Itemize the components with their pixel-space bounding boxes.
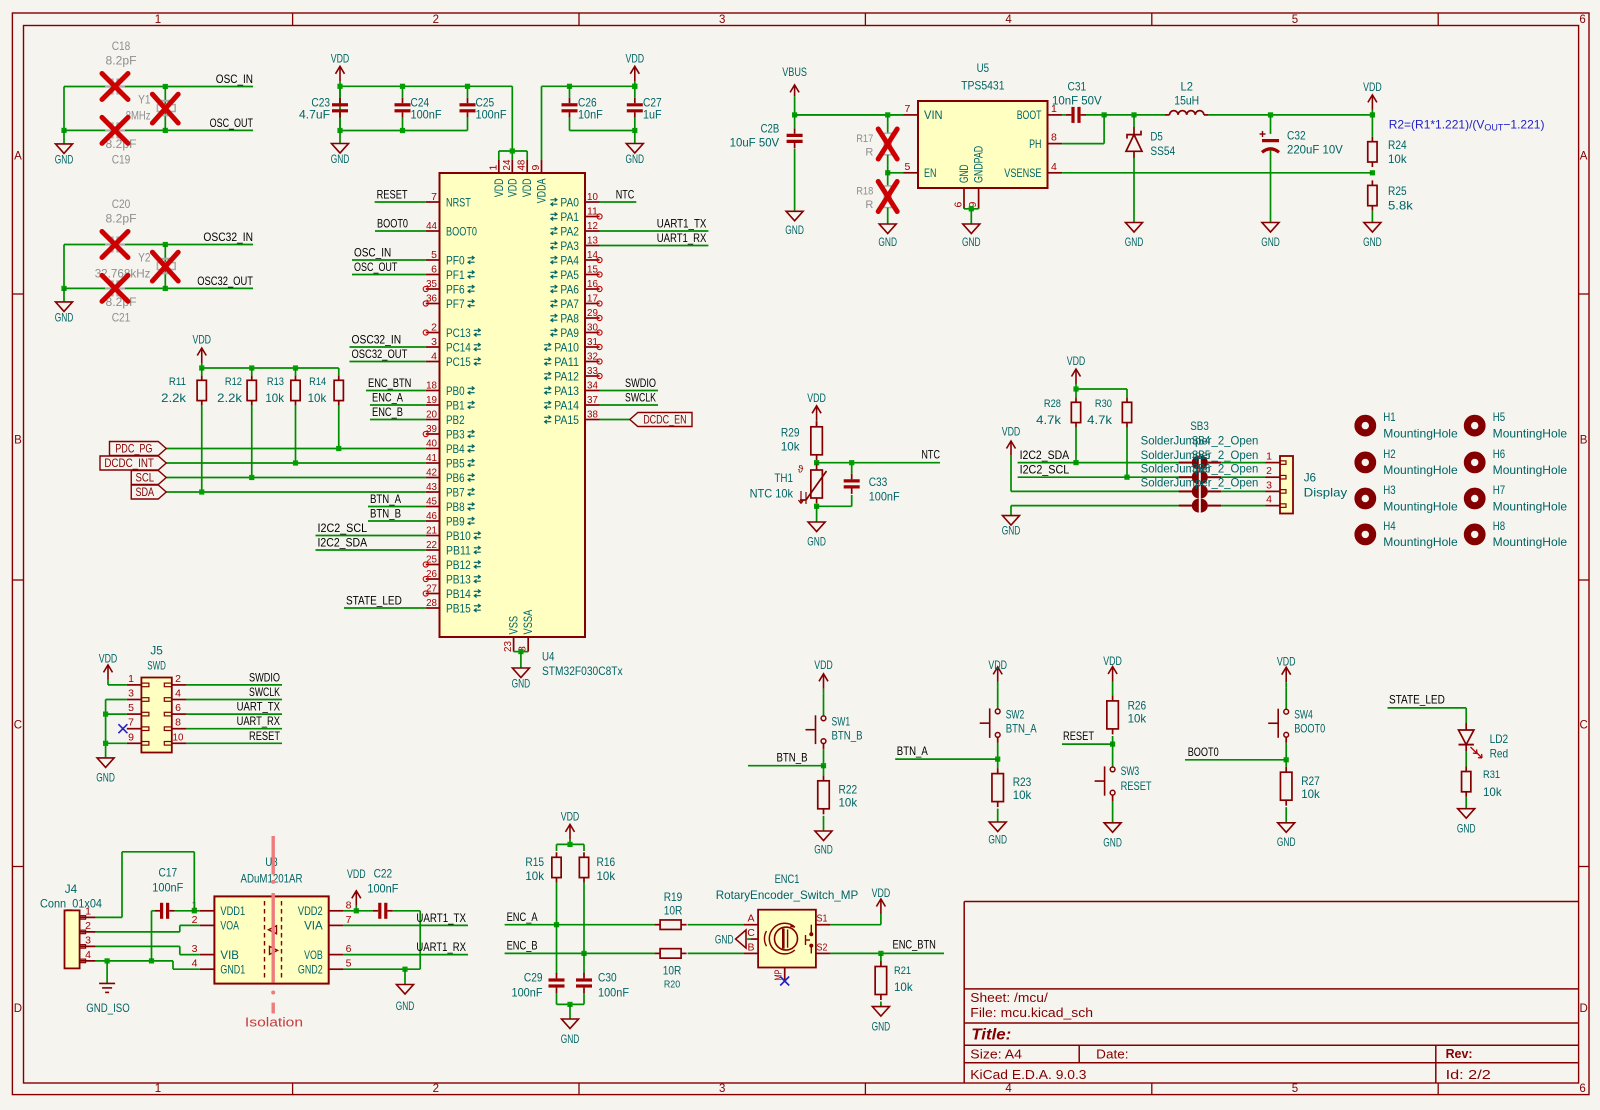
svg-text:15uH: 15uH [1174,94,1199,108]
svg-text:1: 1 [155,1083,161,1095]
svg-text:7: 7 [346,914,352,926]
svg-text:BTN_A: BTN_A [1006,721,1037,735]
svg-text:1: 1 [487,165,499,171]
svg-text:PB14: PB14 [446,587,471,601]
svg-text:43: 43 [426,481,437,493]
svg-text:GND: GND [1457,822,1476,836]
svg-text:VDDA: VDDA [535,179,549,204]
svg-text:GND: GND [1002,524,1021,538]
svg-text:C2B: C2B [761,121,780,135]
svg-text:NTC: NTC [921,448,940,462]
svg-text:2: 2 [1266,465,1272,477]
svg-text:PB15: PB15 [446,601,471,615]
svg-text:30: 30 [587,322,598,334]
svg-text:C31: C31 [1068,80,1087,94]
svg-text:Isolation: Isolation [245,1016,303,1030]
svg-text:ϑ: ϑ [798,465,804,476]
svg-text:10R: 10R [664,904,683,918]
svg-text:4: 4 [1266,494,1272,506]
svg-text:RESET: RESET [249,729,281,743]
svg-text:A: A [14,151,22,163]
svg-text:D: D [1579,1003,1587,1015]
svg-text:BTN_B: BTN_B [777,751,808,765]
svg-text:GND: GND [872,1020,891,1034]
svg-text:SW2: SW2 [1006,707,1025,721]
svg-text:100nF: 100nF [476,108,507,122]
svg-text:Y1: Y1 [138,93,151,107]
svg-text:20: 20 [426,409,437,421]
svg-text:NRST: NRST [446,195,471,209]
svg-text:PB7: PB7 [446,485,465,499]
svg-text:OSC32_OUT: OSC32_OUT [352,347,408,361]
svg-text:22: 22 [426,539,437,551]
svg-text:1: 1 [128,673,134,685]
svg-text:100nF: 100nF [512,985,543,999]
svg-text:VDD: VDD [331,51,350,65]
svg-text:GND1: GND1 [220,963,245,977]
svg-text:R22: R22 [839,782,858,796]
svg-text:RESET: RESET [1063,729,1095,743]
svg-text:OSC_OUT: OSC_OUT [210,116,254,130]
svg-text:Conn_01x04: Conn_01x04 [40,896,102,910]
svg-text:J4: J4 [65,882,78,896]
svg-text:EN: EN [924,166,936,180]
svg-text:OSC_IN: OSC_IN [354,246,391,260]
svg-text:UART_TX: UART_TX [237,700,280,714]
svg-text:2: 2 [192,914,198,926]
svg-text:4: 4 [1051,161,1057,173]
svg-text:R25: R25 [1388,184,1407,198]
svg-text:H3: H3 [1383,483,1396,497]
svg-text:PC14: PC14 [446,340,471,354]
svg-text:C: C [1579,720,1587,732]
svg-text:B: B [1580,435,1588,447]
svg-text:A: A [747,913,754,925]
svg-text:MountingHole: MountingHole [1493,426,1568,440]
svg-text:PF6: PF6 [446,282,465,296]
svg-text:PB1: PB1 [446,398,465,412]
svg-text:GND: GND [561,1032,580,1046]
svg-text:34: 34 [587,380,598,392]
svg-text:3: 3 [719,1083,725,1095]
svg-text:J6: J6 [1304,471,1317,485]
svg-text:VDD: VDD [492,178,506,197]
svg-text:PB3: PB3 [446,427,465,441]
svg-text:C22: C22 [374,867,393,881]
svg-text:SB3: SB3 [1190,419,1209,433]
svg-text:STATE_LED: STATE_LED [346,594,402,608]
svg-text:5: 5 [346,958,352,970]
svg-text:U5: U5 [977,61,990,75]
svg-text:ENC_BTN: ENC_BTN [368,376,411,390]
svg-text:10k: 10k [1483,785,1503,799]
svg-text:D5: D5 [1150,130,1163,144]
svg-text:SWCLK: SWCLK [249,685,280,699]
svg-text:UART1_TX: UART1_TX [416,911,466,925]
svg-text:H7: H7 [1493,483,1506,497]
svg-text:SS54: SS54 [1150,144,1175,158]
svg-text:SDA: SDA [135,485,154,499]
svg-text:C17: C17 [159,865,178,879]
svg-text:R31: R31 [1483,769,1500,781]
svg-text:10k: 10k [597,869,617,883]
svg-text:C21: C21 [112,310,131,324]
svg-text:10k: 10k [1128,712,1148,726]
svg-text:GND: GND [1103,835,1122,849]
svg-text:PA10: PA10 [554,340,579,354]
svg-text:2: 2 [433,1083,439,1095]
svg-text:10: 10 [587,191,598,203]
svg-text:32: 32 [587,351,598,363]
svg-text:DCDC_INT: DCDC_INT [104,456,154,470]
svg-text:GND: GND [1277,835,1296,849]
svg-text:VDD: VDD [1363,80,1382,94]
svg-text:12: 12 [587,220,598,232]
svg-text:10k: 10k [308,391,328,405]
svg-text:VDD: VDD [807,391,826,405]
svg-text:VSS: VSS [507,616,521,635]
svg-text:U4: U4 [542,649,555,663]
svg-text:STATE_LED: STATE_LED [1389,693,1445,707]
svg-text:10k: 10k [839,795,859,809]
svg-text:LD2: LD2 [1490,732,1509,746]
svg-text:PA9: PA9 [560,326,579,340]
svg-text:Sheet: /mcu/: Sheet: /mcu/ [970,991,1048,1005]
svg-text:41: 41 [426,452,437,464]
svg-text:VSENSE: VSENSE [1004,166,1041,180]
svg-text:100nF: 100nF [598,985,629,999]
svg-text:10k: 10k [265,391,285,405]
svg-text:R21: R21 [894,965,911,977]
svg-text:C: C [747,927,755,939]
svg-text:R19: R19 [664,890,683,904]
svg-text:BTN_B: BTN_B [370,507,401,521]
svg-text:GND: GND [785,223,804,237]
svg-text:GND: GND [55,152,74,166]
svg-text:UART1_RX: UART1_RX [657,231,707,245]
svg-text:7: 7 [128,717,134,729]
svg-text:6: 6 [175,702,181,714]
svg-text:PB5: PB5 [446,456,465,470]
svg-text:BOOT0: BOOT0 [377,217,408,231]
svg-text:R29: R29 [781,426,800,440]
svg-text:PA0: PA0 [560,195,579,209]
svg-text:38: 38 [587,409,598,421]
svg-text:BTN_A: BTN_A [370,492,401,506]
svg-text:29: 29 [587,307,598,319]
svg-text:R: R [865,147,873,159]
svg-text:BTN_B: BTN_B [832,728,863,742]
svg-text:C: C [14,720,22,732]
svg-text:R23: R23 [1013,775,1032,789]
svg-text:PB11: PB11 [446,543,471,557]
svg-text:RESET: RESET [377,188,409,202]
svg-text:1uF: 1uF [643,108,662,122]
svg-text:R12: R12 [225,376,242,388]
svg-text:Y2: Y2 [138,251,151,265]
svg-text:H8: H8 [1493,519,1506,533]
svg-text:4: 4 [1005,1083,1012,1095]
svg-text:Red: Red [1490,747,1509,761]
svg-text:3: 3 [1266,479,1272,491]
svg-text:D: D [14,1003,22,1015]
svg-text:3: 3 [431,336,437,348]
svg-text:VDD1: VDD1 [220,904,245,918]
svg-text:14: 14 [587,249,598,261]
svg-text:28: 28 [426,597,437,609]
svg-text:RotaryEncoder_Switch_MP: RotaryEncoder_Switch_MP [716,888,859,902]
svg-text:UART1_RX: UART1_RX [416,940,466,954]
svg-text:R20: R20 [664,979,680,991]
svg-text:GND: GND [396,999,415,1013]
svg-text:UART_RX: UART_RX [237,714,280,728]
svg-text:6: 6 [1579,1083,1585,1095]
svg-text:GND: GND [715,932,734,946]
svg-text:PB6: PB6 [446,471,465,485]
svg-text:ENC1: ENC1 [775,872,800,886]
svg-text:1: 1 [155,14,161,26]
svg-text:VSSA: VSSA [521,610,535,635]
svg-text:H1: H1 [1383,410,1396,424]
svg-text:I2C2_SCL: I2C2_SCL [1020,463,1070,477]
svg-text:MountingHole: MountingHole [1383,535,1458,549]
svg-text:SolderJumper_2_Open: SolderJumper_2_Open [1141,475,1259,489]
svg-text:21: 21 [426,525,437,537]
svg-text:GND: GND [626,152,645,166]
svg-text:220uF 10V: 220uF 10V [1287,142,1343,156]
svg-text:10nF 50V: 10nF 50V [1052,94,1102,108]
svg-text:6: 6 [1579,14,1585,26]
svg-text:PC15: PC15 [446,355,471,369]
svg-text:ENC_BTN: ENC_BTN [893,937,936,951]
svg-text:VDD: VDD [1103,654,1122,668]
svg-text:R2=(R1*1.221)/(VOUT−1.221): R2=(R1*1.221)/(VOUT−1.221) [1389,118,1545,133]
svg-text:I2C2_SDA: I2C2_SDA [318,536,368,550]
svg-text:SWD: SWD [147,658,166,672]
svg-text:ENC_A: ENC_A [372,391,403,405]
svg-text:SB4: SB4 [1192,433,1211,447]
svg-text:PA13: PA13 [554,384,579,398]
svg-text:2: 2 [433,14,439,26]
svg-text:C29: C29 [524,971,543,985]
svg-text:PC13: PC13 [446,326,471,340]
svg-text:46: 46 [426,510,437,522]
svg-text:H5: H5 [1493,410,1506,424]
svg-text:MountingHole: MountingHole [1383,426,1458,440]
svg-text:VDD: VDD [347,867,366,881]
svg-text:MountingHole: MountingHole [1383,463,1458,477]
svg-text:10k: 10k [1013,788,1033,802]
svg-text:PA15: PA15 [554,413,579,427]
svg-text:VDD: VDD [1067,354,1086,368]
svg-text:7: 7 [431,191,437,203]
svg-text:SWDIO: SWDIO [625,376,656,390]
svg-text:3: 3 [719,14,725,26]
svg-text:ENC_B: ENC_B [507,939,538,953]
svg-text:40: 40 [426,438,437,450]
svg-text:OSC_OUT: OSC_OUT [354,260,398,274]
svg-text:S2: S2 [817,941,828,953]
svg-text:R14: R14 [309,376,326,388]
svg-text:VDD: VDD [520,178,534,197]
svg-text:8: 8 [346,899,352,911]
svg-text:R: R [865,199,873,211]
svg-text:10R: 10R [663,963,682,977]
svg-text:2.2k: 2.2k [217,391,243,405]
svg-text:31: 31 [587,336,598,348]
svg-text:100nF: 100nF [367,881,398,895]
svg-text:10nF: 10nF [578,108,603,122]
svg-text:100nF: 100nF [869,490,900,504]
svg-text:PB4: PB4 [446,442,465,456]
svg-text:MountingHole: MountingHole [1383,499,1458,513]
svg-text:I2C2_SDA: I2C2_SDA [1020,448,1070,462]
svg-text:4: 4 [192,958,198,970]
svg-text:GND: GND [55,310,74,324]
svg-text:6: 6 [431,264,437,276]
svg-text:VDD: VDD [192,333,211,347]
svg-text:GND2: GND2 [298,963,323,977]
svg-text:6: 6 [346,943,352,955]
svg-text:15: 15 [587,264,598,276]
svg-text:7: 7 [905,103,911,115]
svg-text:PA6: PA6 [560,282,579,296]
svg-text:24: 24 [501,159,513,170]
svg-text:VDD: VDD [561,810,580,824]
svg-text:23: 23 [502,641,514,652]
svg-text:10k: 10k [781,440,801,454]
svg-text:MountingHole: MountingHole [1493,535,1568,549]
svg-text:PDC_PG: PDC_PG [115,442,152,456]
svg-text:PA1: PA1 [560,210,579,224]
svg-text:H2: H2 [1383,447,1396,461]
svg-text:Size: A4: Size: A4 [970,1048,1022,1062]
svg-text:GND: GND [957,164,971,183]
svg-text:OSC_IN: OSC_IN [216,72,253,86]
svg-text:R16: R16 [597,855,616,869]
svg-text:33: 33 [587,365,598,377]
svg-text:2: 2 [175,673,181,685]
svg-text:VDD: VDD [1002,425,1021,439]
svg-text:B: B [14,435,22,447]
svg-text:VDD: VDD [1277,654,1296,668]
svg-text:GND: GND [878,235,897,249]
svg-text:PH: PH [1029,137,1041,151]
svg-text:TPS5431: TPS5431 [961,78,1005,92]
svg-text:VDD2: VDD2 [298,904,323,918]
svg-text:NTC: NTC [616,188,635,202]
svg-text:18: 18 [426,380,437,392]
svg-text:5.8k: 5.8k [1388,198,1414,212]
svg-text:R17: R17 [856,133,873,145]
svg-text:VDD: VDD [988,658,1007,672]
svg-text:SW3: SW3 [1121,764,1140,778]
svg-text:10k: 10k [525,869,545,883]
svg-text:44: 44 [426,220,437,232]
svg-text:16: 16 [587,278,598,290]
svg-text:6: 6 [953,202,965,208]
svg-text:H4: H4 [1383,519,1396,533]
svg-text:File: mcu.kicad_sch: File: mcu.kicad_sch [970,1006,1093,1020]
svg-text:8: 8 [1051,132,1057,144]
svg-text:PA7: PA7 [560,297,579,311]
svg-text:48: 48 [516,159,528,170]
svg-text:5: 5 [431,249,437,261]
svg-text:UART1_TX: UART1_TX [657,217,707,231]
svg-text:Date:: Date: [1096,1048,1128,1062]
svg-text:4: 4 [175,688,181,700]
svg-text:VOA: VOA [220,919,239,933]
svg-text:DCDC_EN: DCDC_EN [643,413,686,427]
svg-text:100nF: 100nF [411,108,442,122]
svg-text:4: 4 [1005,14,1012,26]
svg-text:10: 10 [173,731,184,743]
svg-text:PB12: PB12 [446,558,471,572]
svg-text:8.2pF: 8.2pF [106,54,137,68]
svg-text:J5: J5 [150,643,163,657]
svg-text:10uF 50V: 10uF 50V [730,135,780,149]
svg-text:VDD: VDD [505,178,519,197]
svg-text:ENC_A: ENC_A [507,910,538,924]
svg-text:GND: GND [988,832,1007,846]
svg-text:GND: GND [96,770,115,784]
svg-text:SB6: SB6 [1192,462,1211,476]
svg-text:PA3: PA3 [560,239,579,253]
svg-text:Title:: Title: [971,1026,1011,1043]
svg-text:L2: L2 [1181,80,1194,94]
svg-text:R28: R28 [1044,398,1061,410]
svg-text:R15: R15 [525,855,544,869]
svg-text:42: 42 [426,467,437,479]
svg-text:GND: GND [512,677,531,691]
svg-text:5: 5 [128,702,134,714]
svg-text:3: 3 [128,688,134,700]
svg-text:GND: GND [1261,235,1280,249]
svg-text:4.7uF: 4.7uF [299,108,330,122]
svg-text:C18: C18 [112,39,131,53]
svg-text:SB5: SB5 [1192,448,1211,462]
svg-text:2: 2 [431,322,437,334]
svg-text:B: B [747,941,754,953]
svg-text:PF0: PF0 [446,253,465,267]
svg-text:Display: Display [1304,486,1347,500]
svg-text:R11: R11 [169,376,186,388]
svg-text:Id: 2/2: Id: 2/2 [1446,1068,1491,1082]
svg-text:PF1: PF1 [446,268,465,282]
svg-text:GNDPAD: GNDPAD [972,146,986,183]
svg-text:SW4: SW4 [1294,708,1313,722]
svg-text:VDD: VDD [872,886,891,900]
svg-text:10k: 10k [1388,152,1408,166]
svg-text:OSC32_OUT: OSC32_OUT [197,274,253,288]
svg-text:VBUS: VBUS [782,65,807,79]
svg-text:R27: R27 [1301,774,1320,788]
svg-text:GND: GND [1363,235,1382,249]
svg-text:NTC 10k: NTC 10k [750,487,794,501]
svg-text:13: 13 [587,235,598,247]
svg-text:R26: R26 [1128,699,1147,713]
svg-text:PB9: PB9 [446,514,465,528]
svg-text:11: 11 [587,206,598,218]
svg-text:BOOT0: BOOT0 [1294,722,1325,736]
svg-text:PA14: PA14 [554,398,579,412]
svg-text:STM32F030C8Tx: STM32F030C8Tx [542,664,623,678]
svg-text:PB10: PB10 [446,529,471,543]
svg-text:PA5: PA5 [560,268,579,282]
svg-text:R13: R13 [267,376,284,388]
svg-text:C33: C33 [869,475,888,489]
svg-text:VDD: VDD [99,652,118,666]
